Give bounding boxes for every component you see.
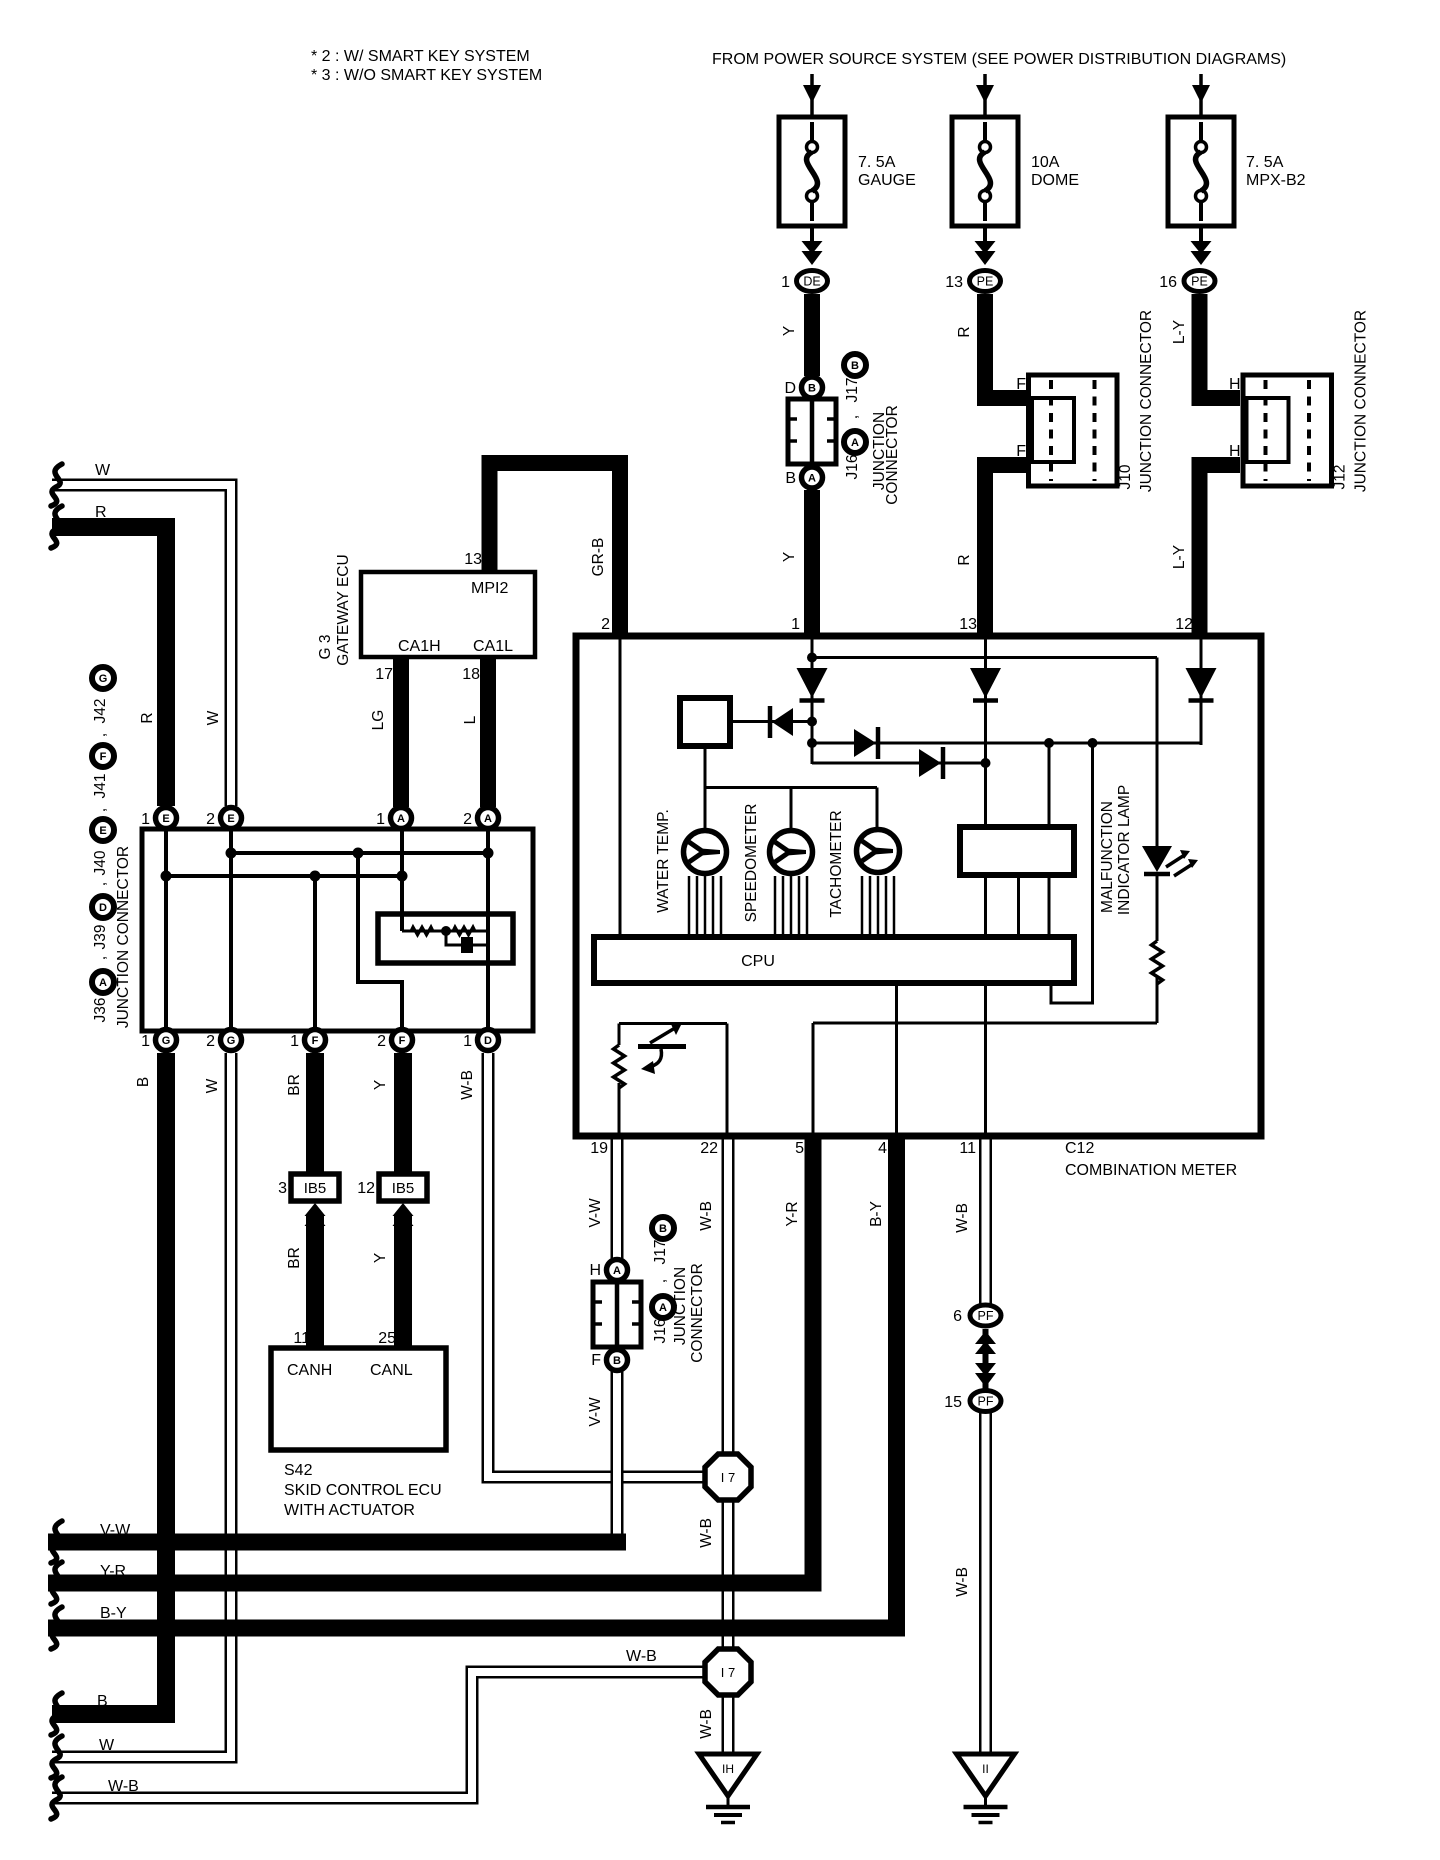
svg-text:SKID CONTROL ECU: SKID CONTROL ECU bbox=[284, 1482, 442, 1499]
svg-text:2: 2 bbox=[463, 811, 472, 828]
svg-text:V-W: V-W bbox=[587, 1397, 604, 1427]
svg-text:PE: PE bbox=[977, 275, 994, 289]
svg-text:18: 18 bbox=[462, 666, 480, 683]
svg-text:B-Y: B-Y bbox=[100, 1605, 127, 1622]
svg-text:22: 22 bbox=[700, 1140, 718, 1157]
svg-text:JUNCTION: JUNCTION bbox=[672, 1267, 689, 1345]
svg-text:B: B bbox=[808, 382, 816, 394]
svg-text:* 3 : W/O SMART KEY SYSTEM: * 3 : W/O SMART KEY SYSTEM bbox=[311, 67, 542, 84]
svg-text:4: 4 bbox=[878, 1140, 887, 1157]
svg-text:19: 19 bbox=[590, 1140, 608, 1157]
svg-text:7. 5A: 7. 5A bbox=[1246, 154, 1284, 171]
svg-text:R: R bbox=[956, 326, 973, 337]
svg-text:H: H bbox=[1229, 376, 1241, 393]
svg-text:J42: J42 bbox=[92, 699, 109, 724]
svg-text:V-W: V-W bbox=[587, 1198, 604, 1228]
svg-text:B: B bbox=[785, 470, 796, 487]
svg-text:A: A bbox=[808, 472, 816, 484]
svg-text:B: B bbox=[135, 1077, 152, 1087]
svg-text:L: L bbox=[462, 715, 479, 724]
svg-text:I 7: I 7 bbox=[721, 1665, 735, 1680]
svg-text:MPX-B2: MPX-B2 bbox=[1246, 172, 1306, 189]
svg-text:CA1L: CA1L bbox=[473, 638, 513, 655]
svg-text:FROM POWER SOURCE SYSTEM (SEE: FROM POWER SOURCE SYSTEM (SEE POWER DIST… bbox=[712, 51, 1286, 68]
svg-text:PF: PF bbox=[978, 1395, 994, 1409]
svg-text:,: , bbox=[652, 1279, 669, 1283]
svg-text:GAUGE: GAUGE bbox=[858, 172, 916, 189]
svg-text:Y: Y bbox=[372, 1253, 389, 1263]
svg-text:J10: J10 bbox=[1117, 464, 1134, 489]
svg-text:* 2 : W/ SMART KEY SYSTEM: * 2 : W/ SMART KEY SYSTEM bbox=[311, 48, 530, 65]
svg-text:J40: J40 bbox=[92, 850, 109, 875]
svg-text:I 7: I 7 bbox=[721, 1470, 735, 1485]
svg-text:A: A bbox=[484, 813, 492, 825]
svg-text:Y: Y bbox=[372, 1080, 389, 1090]
svg-text:,: , bbox=[92, 808, 109, 812]
svg-text:MALFUNCTION: MALFUNCTION bbox=[1099, 801, 1116, 913]
svg-text:2: 2 bbox=[601, 616, 610, 633]
svg-text:A: A bbox=[613, 1265, 621, 1277]
svg-text:R: R bbox=[95, 504, 107, 521]
svg-text:B: B bbox=[97, 1693, 108, 1710]
svg-text:W: W bbox=[95, 462, 111, 479]
svg-text:W-B: W-B bbox=[108, 1778, 139, 1795]
svg-text:,: , bbox=[92, 956, 109, 960]
svg-text:R: R bbox=[956, 554, 973, 565]
svg-text:DE: DE bbox=[803, 275, 820, 289]
svg-text:H: H bbox=[589, 1262, 601, 1279]
svg-text:BR: BR bbox=[286, 1074, 303, 1096]
svg-text:J39: J39 bbox=[92, 925, 109, 950]
svg-text:10A: 10A bbox=[1031, 154, 1060, 171]
svg-text:IB5: IB5 bbox=[392, 1180, 415, 1197]
svg-text:WATER TEMP.: WATER TEMP. bbox=[655, 809, 672, 913]
svg-text:W-B: W-B bbox=[698, 1518, 715, 1548]
svg-text:JUNCTION CONNECTOR: JUNCTION CONNECTOR bbox=[1353, 310, 1370, 492]
svg-text:CONNECTOR: CONNECTOR bbox=[884, 405, 901, 505]
svg-text:,: , bbox=[844, 415, 861, 419]
svg-text:17: 17 bbox=[375, 666, 393, 683]
svg-text:LG: LG bbox=[370, 710, 387, 731]
svg-text:13: 13 bbox=[959, 616, 977, 633]
svg-text:SPEEDOMETER: SPEEDOMETER bbox=[743, 804, 760, 923]
svg-text:Y-R: Y-R bbox=[784, 1201, 801, 1226]
svg-text:BR: BR bbox=[286, 1247, 303, 1269]
svg-text:W: W bbox=[205, 710, 222, 725]
svg-text:B: B bbox=[659, 1223, 667, 1235]
svg-text:F: F bbox=[100, 751, 107, 763]
svg-text:JUNCTION CONNECTOR: JUNCTION CONNECTOR bbox=[115, 846, 132, 1028]
svg-text:11: 11 bbox=[959, 1140, 976, 1157]
svg-text:12: 12 bbox=[357, 1180, 375, 1197]
svg-text:13: 13 bbox=[945, 274, 963, 291]
svg-text:,: , bbox=[92, 882, 109, 886]
svg-text:CANH: CANH bbox=[287, 1362, 332, 1379]
svg-text:W-B: W-B bbox=[698, 1709, 715, 1739]
svg-text:15: 15 bbox=[944, 1394, 962, 1411]
svg-text:CANL: CANL bbox=[370, 1362, 413, 1379]
svg-text:Y: Y bbox=[781, 552, 798, 562]
svg-text:J17: J17 bbox=[844, 378, 861, 403]
svg-text:F: F bbox=[1016, 443, 1026, 460]
svg-text:INDICATOR LAMP: INDICATOR LAMP bbox=[1116, 785, 1133, 915]
svg-text:J12: J12 bbox=[1332, 465, 1349, 490]
svg-text:CPU: CPU bbox=[741, 953, 775, 970]
svg-text:25: 25 bbox=[378, 1330, 396, 1347]
svg-text:1: 1 bbox=[463, 1033, 472, 1050]
svg-text:V-W: V-W bbox=[100, 1522, 131, 1539]
svg-text:W-B: W-B bbox=[626, 1648, 657, 1665]
svg-text:1: 1 bbox=[141, 811, 150, 828]
svg-text:W-B: W-B bbox=[954, 1567, 971, 1597]
svg-text:6: 6 bbox=[953, 1308, 962, 1325]
svg-text:A: A bbox=[99, 977, 107, 989]
svg-text:E: E bbox=[162, 813, 169, 825]
svg-text:2: 2 bbox=[377, 1033, 386, 1050]
svg-text:5: 5 bbox=[795, 1140, 804, 1157]
svg-text:3: 3 bbox=[278, 1180, 287, 1197]
svg-text:F: F bbox=[1016, 376, 1026, 393]
svg-text:1: 1 bbox=[376, 811, 385, 828]
svg-text:E: E bbox=[227, 813, 234, 825]
svg-text:,: , bbox=[92, 733, 109, 737]
svg-text:W-B: W-B bbox=[954, 1203, 971, 1233]
svg-text:1: 1 bbox=[141, 1033, 150, 1050]
svg-text:WITH ACTUATOR: WITH ACTUATOR bbox=[284, 1502, 415, 1519]
svg-text:TACHOMETER: TACHOMETER bbox=[828, 810, 845, 917]
svg-text:16: 16 bbox=[1159, 274, 1177, 291]
svg-text:L-Y: L-Y bbox=[1171, 320, 1188, 344]
svg-text:F: F bbox=[312, 1035, 319, 1047]
svg-text:J16: J16 bbox=[844, 455, 861, 480]
svg-text:D: D bbox=[484, 1035, 492, 1047]
svg-text:E: E bbox=[99, 825, 106, 837]
svg-text:1: 1 bbox=[791, 616, 800, 633]
svg-text:F: F bbox=[591, 1352, 601, 1369]
svg-text:GR-B: GR-B bbox=[590, 538, 607, 577]
svg-text:W: W bbox=[204, 1078, 221, 1093]
svg-text:C12: C12 bbox=[1065, 1140, 1094, 1157]
svg-text:D: D bbox=[784, 380, 796, 397]
svg-text:13: 13 bbox=[464, 551, 482, 568]
svg-text:2: 2 bbox=[206, 811, 215, 828]
svg-text:A: A bbox=[659, 1302, 667, 1314]
svg-text:J41: J41 bbox=[92, 774, 109, 799]
svg-text:H: H bbox=[1229, 443, 1241, 460]
svg-text:1: 1 bbox=[781, 274, 790, 291]
svg-text:11: 11 bbox=[293, 1330, 310, 1347]
svg-text:COMBINATION METER: COMBINATION METER bbox=[1065, 1162, 1237, 1179]
svg-text:A: A bbox=[851, 437, 859, 449]
svg-text:F: F bbox=[399, 1035, 406, 1047]
svg-text:J17: J17 bbox=[652, 1240, 669, 1265]
svg-text:PF: PF bbox=[978, 1309, 994, 1323]
svg-text:IH: IH bbox=[722, 1762, 734, 1776]
svg-text:GATEWAY ECU: GATEWAY ECU bbox=[335, 554, 352, 665]
svg-text:1: 1 bbox=[290, 1033, 299, 1050]
svg-text:B: B bbox=[613, 1355, 621, 1367]
svg-text:B-Y: B-Y bbox=[868, 1201, 885, 1227]
svg-text:S42: S42 bbox=[284, 1462, 313, 1479]
svg-text:2: 2 bbox=[206, 1033, 215, 1050]
svg-text:W-B: W-B bbox=[459, 1070, 476, 1100]
svg-text:DOME: DOME bbox=[1031, 172, 1079, 189]
svg-text:G 3: G 3 bbox=[317, 635, 334, 660]
svg-text:Y: Y bbox=[781, 326, 798, 336]
svg-text:A: A bbox=[397, 813, 405, 825]
svg-text:J36: J36 bbox=[92, 998, 109, 1023]
svg-text:W-B: W-B bbox=[698, 1201, 715, 1231]
svg-text:CA1H: CA1H bbox=[398, 638, 441, 655]
svg-text:G: G bbox=[99, 673, 108, 685]
svg-text:JUNCTION CONNECTOR: JUNCTION CONNECTOR bbox=[1138, 310, 1155, 492]
svg-text:L-Y: L-Y bbox=[1171, 545, 1188, 569]
svg-text:PE: PE bbox=[1191, 275, 1208, 289]
svg-text:J16: J16 bbox=[652, 1319, 669, 1344]
svg-text:G: G bbox=[227, 1035, 236, 1047]
svg-text:CONNECTOR: CONNECTOR bbox=[689, 1263, 706, 1363]
svg-text:IB5: IB5 bbox=[304, 1180, 327, 1197]
svg-text:7. 5A: 7. 5A bbox=[858, 154, 896, 171]
svg-text:R: R bbox=[139, 712, 156, 723]
svg-text:B: B bbox=[851, 360, 859, 372]
svg-text:MPI2: MPI2 bbox=[471, 580, 508, 597]
svg-text:Y-R: Y-R bbox=[100, 1563, 126, 1580]
svg-text:D: D bbox=[99, 902, 107, 914]
svg-text:G: G bbox=[162, 1035, 171, 1047]
svg-text:W: W bbox=[99, 1737, 115, 1754]
svg-text:II: II bbox=[982, 1762, 989, 1776]
svg-text:12: 12 bbox=[1175, 616, 1193, 633]
